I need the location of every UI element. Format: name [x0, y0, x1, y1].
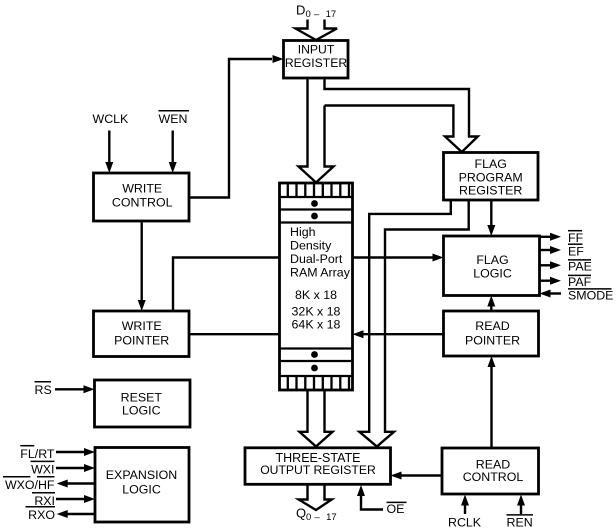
label WXO/HF with overline	[3, 477, 55, 492]
svg-text:High: High	[290, 225, 316, 239]
svg-text:OE: OE	[387, 502, 405, 516]
label WEN with overline	[159, 111, 190, 126]
svg-text:WCLK: WCLK	[93, 112, 130, 126]
svg-text:Q: Q	[296, 506, 306, 521]
label flag program register	[459, 157, 523, 198]
svg-text:EF: EF	[568, 245, 584, 259]
svg-text:0 – 17: 0 – 17	[306, 9, 337, 20]
svg-text:POINTER: POINTER	[465, 333, 520, 347]
svg-text:FL/RT: FL/RT	[20, 447, 55, 461]
flag program register box	[444, 153, 539, 201]
svg-text:RESET: RESET	[121, 391, 163, 405]
label FL/RT with overline on FL	[20, 446, 55, 461]
svg-text:SMODE: SMODE	[568, 289, 613, 303]
write pointer box	[94, 311, 190, 357]
bus RAM array to three-state output register	[300, 390, 333, 447]
wire EF output	[540, 246, 562, 254]
wire read control to read pointer	[488, 356, 496, 448]
svg-text:32K x 18: 32K x 18	[292, 305, 341, 319]
svg-text:RXI: RXI	[34, 494, 55, 508]
svg-text:FF: FF	[568, 231, 584, 245]
wire SMODE input	[540, 290, 562, 298]
svg-text:EXPANSION: EXPANSION	[106, 468, 177, 482]
write control box	[94, 173, 190, 221]
svg-text:RCLK: RCLK	[448, 516, 482, 530]
svg-text:RAM Array: RAM Array	[290, 266, 351, 280]
wire read pointer to flag logic	[487, 296, 495, 312]
wire RS into reset logic	[55, 385, 95, 393]
svg-text:INPUT: INPUT	[298, 43, 335, 57]
wire WXI into expansion logic	[56, 464, 95, 472]
wire WXO/HF out of expansion logic	[57, 480, 95, 488]
svg-text:FLAG: FLAG	[475, 157, 507, 171]
svg-text:CONTROL: CONTROL	[112, 195, 173, 209]
svg-text:WEN: WEN	[159, 112, 188, 126]
wire WCLK into write control	[105, 131, 113, 174]
svg-text:RS: RS	[35, 383, 52, 397]
label EF	[568, 244, 584, 258]
svg-text:WRITE: WRITE	[122, 182, 162, 196]
read pointer box	[444, 311, 539, 356]
label PAF with overline	[568, 275, 592, 289]
svg-text:PAF: PAF	[568, 275, 592, 289]
wire flag program register to flag logic	[487, 200, 495, 236]
label FF with overline	[568, 231, 584, 245]
svg-text:PROGRAM: PROGRAM	[459, 170, 523, 184]
label D0-17	[296, 3, 336, 21]
svg-text:RXO: RXO	[28, 508, 55, 522]
svg-text:REGISTER: REGISTER	[285, 56, 347, 70]
wire RAM array left to write pointer top	[173, 258, 280, 312]
label SMODE with overline	[568, 289, 613, 303]
svg-text:LOGIC: LOGIC	[122, 404, 161, 418]
expansion logic box	[95, 448, 189, 523]
label flag logic	[473, 253, 512, 281]
bus three-state output register to Q0-17	[299, 484, 332, 510]
flag logic box	[444, 236, 540, 296]
svg-text:FLAG: FLAG	[476, 253, 508, 267]
wire write control to input register	[189, 55, 284, 198]
wire read control to three-state output register	[391, 472, 443, 480]
three-state output register box	[245, 448, 391, 485]
label read pointer	[465, 319, 520, 347]
wire FL/RT into expansion logic	[56, 448, 95, 456]
svg-text:WXI: WXI	[31, 463, 54, 477]
label RXI with overline	[32, 493, 55, 508]
svg-text:64K x 18: 64K x 18	[292, 318, 341, 332]
svg-text:CONTROL: CONTROL	[463, 470, 524, 484]
label REN with overline	[507, 515, 534, 530]
label write pointer	[114, 319, 169, 348]
svg-text:POINTER: POINTER	[114, 333, 169, 347]
wire REN into read control	[517, 495, 525, 515]
label Q0-17	[296, 506, 337, 524]
label RAM array	[290, 225, 351, 332]
label reset logic	[121, 391, 163, 418]
svg-text:REGISTER: REGISTER	[459, 184, 522, 198]
read control box	[442, 448, 539, 494]
wire WEN into write control	[169, 131, 177, 174]
reset logic box	[95, 380, 191, 427]
label three-state output register	[260, 451, 376, 477]
label OE with overline	[387, 502, 407, 516]
wire PAE output	[540, 261, 562, 269]
wire RCLK into read control	[461, 495, 469, 515]
label write control	[112, 182, 173, 210]
wire RXI into expansion logic	[56, 495, 95, 503]
label input register	[285, 43, 347, 70]
wire RAM array to flag logic	[353, 254, 444, 262]
input register U-IR	[284, 41, 349, 79]
wire RXO out of expansion logic	[57, 510, 95, 518]
wire PAF output	[540, 277, 562, 285]
label RXO with overline	[26, 507, 56, 522]
svg-text:WXO/HF: WXO/HF	[5, 478, 55, 492]
wire write control to write pointer	[138, 221, 146, 311]
label expansion logic	[106, 468, 177, 497]
svg-text:READ: READ	[475, 319, 509, 333]
svg-text:WRITE: WRITE	[122, 319, 162, 333]
label read control	[463, 458, 524, 485]
wire read pointer to RAM array	[353, 330, 444, 338]
svg-text:LOGIC: LOGIC	[473, 267, 512, 281]
bus input register to flag program register	[325, 78, 478, 152]
svg-text:OUTPUT REGISTER: OUTPUT REGISTER	[260, 463, 376, 477]
bus input register to RAM array	[299, 78, 334, 183]
svg-text:D: D	[296, 3, 305, 18]
svg-text:0 – 17: 0 – 17	[306, 512, 337, 523]
wire OE into three-state output register	[357, 485, 383, 510]
svg-text:8K x 18: 8K x 18	[295, 288, 337, 302]
label WXI with overline	[31, 461, 55, 476]
svg-text:LOGIC: LOGIC	[122, 483, 161, 497]
svg-text:Density: Density	[290, 239, 332, 253]
label RS with overline	[35, 382, 52, 397]
svg-text:REN: REN	[507, 516, 533, 530]
wire write pointer to RAM array	[189, 333, 280, 335]
svg-text:PAE: PAE	[568, 260, 592, 274]
svg-text:Dual-Port: Dual-Port	[290, 252, 343, 266]
node D0-17 input bus arrow	[296, 20, 338, 41]
label PAE with overline	[568, 260, 592, 274]
bus flag program register to three-state output register	[359, 200, 468, 447]
RAM array box	[280, 183, 353, 390]
wire FF output	[540, 233, 562, 241]
